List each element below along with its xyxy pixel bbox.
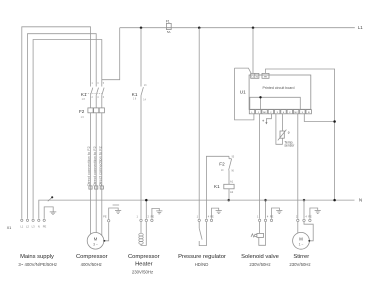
svg-text:sensor: sensor [284, 144, 295, 148]
svg-text:NO: NO [263, 112, 267, 114]
svg-text:PE: PE [210, 214, 214, 218]
svg-text:M: M [94, 236, 98, 241]
svg-text:PE: PE [103, 215, 107, 219]
svg-text:230V/50Hz: 230V/50Hz [249, 262, 270, 267]
svg-text:400V/50Hz: 400V/50Hz [81, 262, 102, 267]
svg-text:Compressor: Compressor [128, 254, 160, 260]
svg-text:X1: X1 [7, 226, 11, 230]
svg-text:ϑ: ϑ [288, 131, 290, 135]
svg-text:Direct connection to F2: Direct connection to F2 [92, 146, 97, 186]
svg-text:Mains supply: Mains supply [20, 254, 54, 260]
svg-text:Stirrer: Stirrer [293, 254, 309, 260]
svg-text:Compressor: Compressor [76, 254, 108, 260]
svg-text:PE: PE [308, 214, 312, 218]
svg-text:F1: F1 [166, 20, 170, 24]
svg-text:Printed circuit board: Printed circuit board [263, 86, 295, 90]
svg-text:A1: A1 [230, 179, 234, 183]
svg-text:F2: F2 [79, 109, 85, 114]
svg-text:Solenoid valve: Solenoid valve [241, 254, 279, 260]
svg-text:U1: U1 [240, 89, 246, 94]
svg-text:Direct connection to F2: Direct connection to F2 [86, 146, 91, 186]
svg-text:Direct connection to F2: Direct connection to F2 [97, 146, 102, 186]
svg-text:N: N [38, 224, 40, 228]
svg-text:Pressure regulator: Pressure regulator [178, 254, 226, 260]
svg-text:K1: K1 [81, 92, 87, 97]
svg-text:PE: PE [270, 214, 274, 218]
svg-text:3 ~: 3 ~ [93, 243, 98, 247]
svg-text:230V/50Hz: 230V/50Hz [289, 262, 310, 267]
svg-text:5A: 5A [167, 30, 171, 34]
svg-text:3~ 400V/N/PE/50Hz: 3~ 400V/N/PE/50Hz [18, 262, 57, 267]
svg-text:230V/50Hz: 230V/50Hz [132, 270, 153, 275]
svg-text:A2: A2 [230, 190, 234, 194]
svg-text:K1: K1 [132, 92, 138, 97]
svg-text:N: N [359, 197, 362, 202]
svg-text:F2: F2 [219, 162, 225, 167]
svg-text:M: M [299, 236, 303, 241]
svg-text:1 ~: 1 ~ [299, 243, 304, 247]
svg-text:PE: PE [43, 224, 47, 228]
svg-text:PE: PE [151, 214, 155, 218]
svg-text:K1: K1 [214, 184, 220, 189]
svg-text:HD/ND: HD/ND [195, 262, 209, 267]
svg-text:NC: NC [295, 112, 299, 114]
svg-text:L1: L1 [358, 25, 363, 30]
svg-text:Heater: Heater [135, 262, 152, 268]
